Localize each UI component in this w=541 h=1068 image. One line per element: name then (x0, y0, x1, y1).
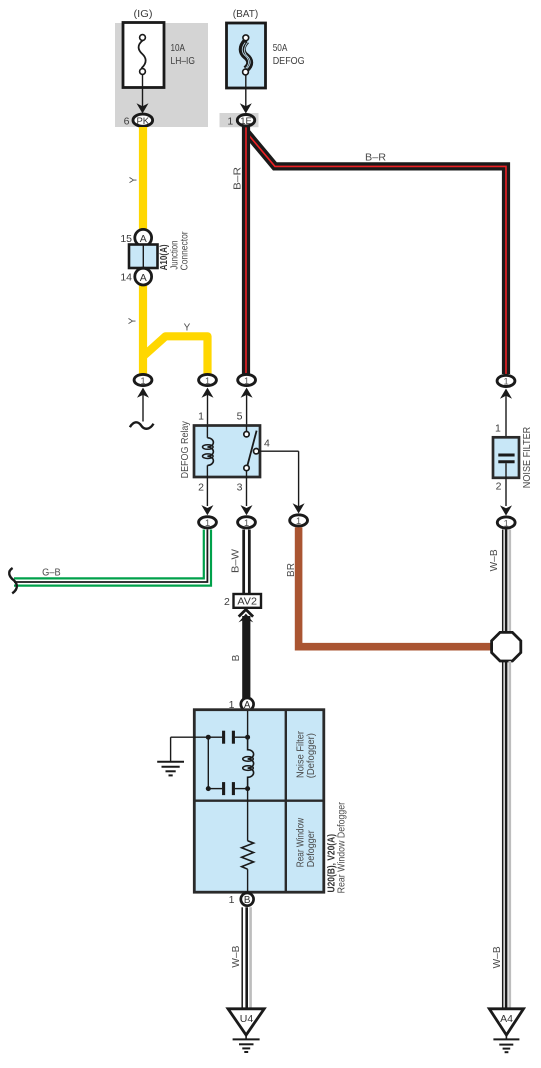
svg-text:15: 15 (120, 233, 132, 245)
junction octagon (492, 632, 521, 661)
wire relay pin4 (259, 450, 299, 452)
wire W-B right upper (503, 530, 510, 633)
arrow down into 1E (240, 103, 252, 113)
svg-text:1: 1 (198, 411, 204, 423)
svg-text:(BAT): (BAT) (233, 8, 259, 20)
wire G-B (14, 530, 207, 583)
connector 1 (IG feed, to other system) (134, 374, 152, 385)
connector 1 1E (227, 115, 254, 128)
connector 1 A (229, 698, 254, 711)
svg-text:10A: 10A (171, 42, 186, 54)
svg-text:U4: U4 (240, 1013, 254, 1025)
svg-text:PK: PK (136, 116, 149, 127)
arrow up into connector (241, 388, 253, 398)
connector 2 AV2 (224, 594, 261, 608)
svg-text:B: B (231, 654, 242, 661)
wire relay pin3 down (246, 477, 248, 506)
ground A4 (489, 1009, 523, 1052)
svg-text:B–R: B–R (233, 167, 244, 190)
svg-text:1: 1 (296, 516, 301, 526)
svg-text:4: 4 (264, 437, 270, 449)
svg-text:A10(A): A10(A) (158, 244, 170, 270)
arrow up into connector (202, 388, 214, 398)
svg-text:BR: BR (286, 563, 297, 577)
connector 1 (noise filter top) (497, 375, 515, 386)
svg-text:DEFOG: DEFOG (273, 55, 305, 67)
wire connector to relay pin5 (246, 392, 248, 426)
svg-text:14: 14 (120, 272, 132, 284)
svg-text:6: 6 (124, 115, 130, 127)
connector 1 B (229, 893, 254, 906)
arrow down (241, 505, 253, 515)
wire noise filter down (505, 463, 507, 506)
wire fuse to connector 1E (245, 75, 247, 108)
svg-text:1E: 1E (240, 116, 252, 127)
svg-text:Y: Y (184, 323, 191, 334)
wire to noise filter (505, 393, 507, 454)
shading behind 1E (220, 113, 259, 127)
connector 1 (to relay pin 5) (238, 374, 256, 385)
svg-text:Rear Window Defogger: Rear Window Defogger (337, 801, 348, 893)
arrow down (pin4 branch) (293, 503, 305, 513)
fuse 50A DEFOG (227, 23, 266, 88)
svg-text:Rear Window: Rear Window (296, 817, 307, 867)
svg-text:Y: Y (129, 176, 140, 183)
wire W-B right lower (503, 661, 510, 1009)
wire fuse to connector PK (142, 74, 144, 108)
svg-text:1: 1 (140, 376, 145, 386)
wire Y branch (143, 336, 208, 374)
wire connector to relay pin1 (207, 392, 209, 426)
wire BR (299, 527, 492, 646)
svg-text:Noise Filter: Noise Filter (296, 730, 307, 778)
wire B-R branch (247, 133, 506, 374)
svg-text:G–B: G–B (42, 568, 61, 579)
connector 1 (relay pin4) (290, 515, 308, 526)
fuse block shading (IG) (115, 23, 208, 127)
noise filter circuit (206, 711, 254, 795)
break squiggle G-B (9, 568, 17, 593)
wire B (242, 616, 250, 699)
arrow down into PK (137, 103, 149, 113)
component box rear window defogger (194, 710, 323, 893)
arrow down (201, 505, 213, 515)
svg-text:AV2: AV2 (237, 597, 257, 608)
svg-text:A: A (140, 272, 147, 284)
noise filter component (493, 427, 533, 488)
svg-text:2: 2 (224, 596, 230, 608)
svg-text:1: 1 (205, 376, 210, 386)
wire to break (142, 392, 144, 422)
svg-text:NOISE FILTER: NOISE FILTER (522, 427, 533, 488)
ground (noise filter) (157, 737, 208, 775)
svg-text:W–B: W–B (492, 946, 503, 968)
svg-text:1: 1 (244, 376, 249, 386)
svg-text:1: 1 (504, 518, 509, 528)
svg-text:50A: 50A (273, 42, 288, 54)
svg-text:B: B (244, 895, 251, 906)
svg-text:LH–IG: LH–IG (171, 55, 196, 67)
connector 1 (relay pin2) (199, 517, 217, 528)
svg-text:B–W: B–W (230, 548, 241, 573)
arrow up into AV2 (239, 610, 253, 617)
wire B-W (242, 530, 250, 595)
svg-text:5: 5 (237, 411, 243, 423)
connector 1 (relay pin3) (238, 517, 256, 528)
arrow up into connector (500, 389, 512, 399)
resistor defogger grid (242, 789, 254, 900)
svg-text:W–B: W–B (489, 549, 500, 571)
wire Y vertical (139, 127, 147, 374)
svg-text:2: 2 (496, 481, 502, 493)
svg-text:(Defogger): (Defogger) (306, 733, 317, 778)
wire relay pin2 down (206, 477, 208, 506)
svg-text:Connector: Connector (180, 231, 191, 271)
wire W-B left (242, 907, 250, 1009)
svg-text:A: A (140, 233, 147, 245)
svg-text:(IG): (IG) (134, 8, 153, 20)
relay DEFOG (180, 411, 270, 494)
svg-text:1: 1 (229, 894, 235, 906)
svg-text:1: 1 (495, 423, 501, 435)
arrow down (500, 505, 512, 515)
svg-text:W–B: W–B (231, 945, 242, 967)
connector 6 PK (124, 114, 153, 127)
svg-text:1: 1 (227, 115, 233, 127)
wire B-R vertical (242, 124, 250, 374)
svg-text:U20(B), V20(A): U20(B), V20(A) (325, 834, 337, 893)
connector 1 (to relay pin 1) (199, 374, 217, 385)
svg-text:3: 3 (237, 482, 243, 494)
svg-text:1: 1 (244, 518, 249, 528)
svg-text:Y: Y (128, 317, 139, 324)
svg-text:2: 2 (198, 482, 204, 494)
svg-text:DEFOG Relay: DEFOG Relay (180, 421, 191, 478)
fuse 10A LH-IG (123, 23, 164, 88)
svg-text:A4: A4 (500, 1013, 513, 1025)
connector 1 (noise filter bottom) (497, 517, 515, 528)
svg-text:1: 1 (503, 377, 508, 387)
svg-text:1: 1 (205, 518, 210, 528)
arrow up from other system (137, 388, 149, 398)
svg-text:B–R: B–R (365, 153, 386, 164)
svg-text:Defogger: Defogger (306, 830, 317, 868)
ground U4 (228, 1009, 264, 1052)
break squiggle (130, 422, 154, 428)
junction connector A10(A) (120, 229, 190, 285)
